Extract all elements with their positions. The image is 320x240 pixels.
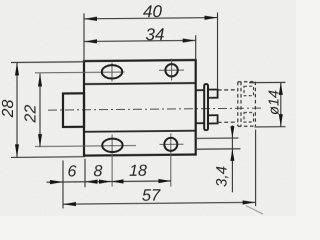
hidden shaft bottom line (dashed) — [218, 121, 238, 123]
dim 8 right arrowhead — [99, 179, 111, 183]
dim 57 left arrowhead — [63, 202, 76, 206]
dim 40 dimension line — [84, 18, 218, 19]
hidden shaft top line (dashed) — [218, 89, 238, 91]
dim 40 left extension line — [83, 13, 85, 61]
flange plate — [204, 84, 208, 130]
dim 40 right arrowhead — [205, 16, 218, 20]
dim 18 right arrowhead — [159, 179, 172, 183]
body outline (main housing 34x28) — [84, 60, 196, 156]
dim 40 right extension line — [217, 13, 219, 90]
dim o14 bottom extension line — [255, 126, 286, 128]
end cap left face line 1 (dashed) — [237, 82, 239, 127]
dim 18 left arrowhead — [111, 179, 123, 183]
bottom bushing tab — [208, 115, 218, 123]
bottom mounting-strip inner line — [84, 131, 196, 132]
dim 6/57 shared left extension line — [62, 160, 64, 208]
dim 3,4 upper outside arrowhead — [230, 126, 234, 138]
dim 28 bottom arrowhead — [15, 144, 19, 157]
bottom slot (oblong mounting hole) — [102, 139, 122, 153]
end cap bottom edge (dashed) — [238, 125, 256, 127]
dim 3,4 lower outside arrowhead — [230, 149, 234, 161]
top hole horizontal centerline — [159, 69, 184, 71]
top slot vertical centerline — [111, 63, 113, 82]
plunger shaft top line (body to flange) — [196, 89, 204, 91]
scan scratch mark bottom right — [246, 206, 263, 215]
left plunger block (6 wide) — [63, 93, 84, 127]
dim 22 top arrowhead — [38, 73, 42, 86]
top mounting-strip inner line — [84, 83, 196, 84]
top slot (oblong mounting hole) — [102, 65, 122, 79]
dim 28 dimension line — [16, 62, 18, 157]
dim 40 left arrowhead — [84, 17, 97, 21]
dim 28 top extension line — [11, 61, 84, 64]
centerline (horizontal axis, dash-dot) — [48, 108, 262, 110]
dim 34 left arrowhead — [84, 39, 97, 43]
dim 22 dimension line — [39, 74, 41, 148]
bottom slot vertical centerline (extends down as 8/18 extension) — [111, 135, 113, 187]
dim 3,4 lower extension line — [195, 148, 241, 150]
dim 28 top arrowhead — [15, 62, 19, 75]
end cap bottom groove (dashed) — [244, 112, 254, 122]
bottom hole horizontal centerline — [160, 143, 184, 145]
dim o14 bottom arrowhead — [279, 114, 283, 127]
top bushing tab — [208, 90, 218, 98]
bottom mounting hole — [164, 138, 177, 151]
dim 22 bottom arrowhead — [38, 134, 42, 147]
bottom slot horizontal centerline (merges with 22 extension) — [35, 145, 136, 148]
end cap left face line 2 (dashed) — [240, 82, 242, 127]
end cap right edge (dashed) — [254, 82, 256, 127]
dim 6/8 shared extension line — [84, 159, 86, 188]
dim 57 right arrowhead — [243, 200, 256, 204]
end cap top edge (dashed, o14 cylinder) — [238, 81, 256, 83]
dim o14 dimension line — [280, 82, 282, 126]
top mounting hole — [165, 64, 177, 77]
plunger shaft bottom line (body to flange) — [196, 122, 204, 124]
dim o14 top arrowhead — [279, 82, 283, 95]
dim 3,4 dimension line — [231, 125, 233, 192]
dim 34 right arrowhead — [183, 38, 196, 42]
top slot horizontal centerline (merges with 22 extension) — [35, 71, 125, 74]
dim 6-8-18 chain dimension line — [47, 181, 172, 182]
dim o14 top extension line — [249, 81, 286, 83]
dim 8 left arrowhead — [85, 180, 98, 184]
bottom hole vertical centerline (extends down as 18 extension) — [170, 133, 172, 186]
dim 57 right extension line — [255, 130, 257, 207]
dim 3,4 upper extension line — [195, 137, 239, 139]
dim 28 bottom extension line — [11, 156, 85, 159]
dim 57 dimension line — [63, 202, 256, 204]
dim 6 outside arrowhead — [50, 180, 63, 184]
dim 34 dimension line — [84, 40, 196, 41]
dim 34 right extension line — [195, 35, 197, 60]
top hole vertical centerline — [171, 58, 173, 80]
end cap top groove (dashed) — [244, 86, 254, 96]
